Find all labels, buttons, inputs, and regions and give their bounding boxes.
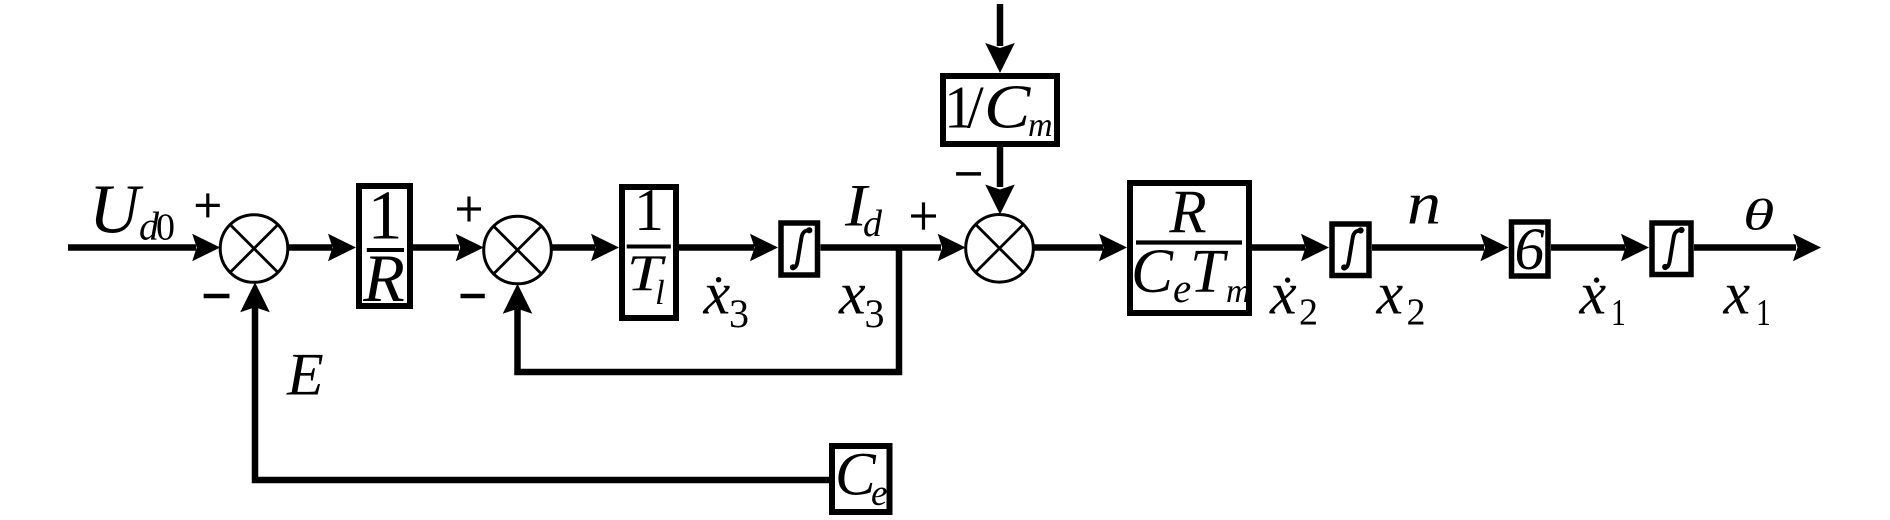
svg-text:3: 3: [865, 291, 885, 336]
svg-text:/: /: [967, 75, 984, 141]
svg-text:x: x: [1376, 261, 1404, 327]
summing junction S3: [966, 215, 1034, 283]
svg-text:6: 6: [1515, 216, 1545, 282]
svg-text:m: m: [1226, 273, 1251, 310]
block 1/Cm: [943, 73, 1057, 144]
svg-text:1: 1: [1611, 293, 1626, 334]
wire: S3 to block R/CeTm: [1033, 234, 1127, 261]
svg-text:l: l: [655, 273, 665, 312]
block Ce: [832, 442, 890, 515]
label x2dot: [1269, 261, 1318, 334]
block R/CeTm: [1130, 179, 1251, 313]
svg-text:θ: θ: [1743, 190, 1774, 239]
minus sign at summing junction S3: [956, 172, 981, 176]
integrator block N2: [1332, 224, 1369, 276]
block 6: [1512, 216, 1549, 282]
label x1: [1723, 261, 1771, 334]
minus sign at summing junction S1: [204, 294, 230, 299]
svg-text:R: R: [1168, 179, 1206, 246]
plus sign at summing junction S2: [457, 197, 481, 222]
svg-text:x: x: [1723, 261, 1751, 327]
svg-text:x: x: [703, 261, 731, 327]
svg-text:2: 2: [1299, 292, 1318, 334]
wire: output theta: [1694, 234, 1821, 261]
plus sign at summing junction S1: [196, 193, 220, 217]
block 1/R: [359, 178, 410, 317]
wire: block 1/Cm to summing junction S3: [985, 147, 1015, 215]
wire: block 6 to integrator N3: [1551, 234, 1649, 261]
plus sign at summing junction S3: [911, 202, 936, 229]
svg-text:T: T: [1190, 238, 1229, 306]
svg-text:U: U: [89, 172, 144, 249]
wire: block 1/R to summing junction S2: [413, 234, 484, 261]
svg-text:e: e: [871, 473, 887, 514]
svg-text:E: E: [286, 342, 324, 408]
svg-text:m: m: [1028, 107, 1053, 144]
wire: S2 to block 1/Tl: [551, 234, 619, 261]
svg-text:x: x: [1579, 261, 1607, 327]
label x3dot: [703, 261, 750, 337]
label x1dot: [1579, 261, 1626, 334]
label x2: [1376, 261, 1426, 334]
wire: integrator N2 to block 6: [1372, 234, 1509, 261]
wire: block 1/Tl to integrator N1: [679, 234, 778, 261]
wire: x3 feedback from node to S2: [503, 248, 899, 373]
wire: S1 to block 1/R: [288, 234, 357, 261]
wire: main input U_d0: [68, 234, 220, 261]
label U_d0: [89, 172, 175, 249]
svg-text:1: 1: [1756, 293, 1771, 334]
svg-text:x: x: [1269, 261, 1297, 327]
integrator block N1: [781, 223, 818, 275]
summing junction S2: [484, 216, 552, 284]
svg-text:3: 3: [729, 291, 749, 336]
label x3: [838, 261, 885, 337]
svg-text:x: x: [838, 261, 866, 327]
label I_d: [844, 172, 883, 245]
wire: integrator N1 to summing junction S3: [821, 234, 966, 261]
wire: E feedback from block Ce to S1: [240, 282, 829, 480]
svg-text:1: 1: [634, 177, 664, 243]
svg-text:C: C: [984, 73, 1031, 142]
svg-text:R: R: [362, 240, 405, 316]
wire: block R/CeTm to integrator N2: [1252, 234, 1329, 261]
summing junction S1: [220, 215, 288, 283]
svg-text:d: d: [863, 203, 883, 245]
integrator block N3: [1652, 223, 1691, 275]
minus sign at summing junction S2: [461, 294, 485, 299]
wire: disturbance input from top: [985, 4, 1015, 73]
svg-text:e: e: [1173, 265, 1191, 311]
svg-text:2: 2: [1407, 292, 1426, 334]
svg-text:0: 0: [156, 207, 175, 249]
block 1/Tl: [622, 177, 676, 318]
svg-text:C: C: [1131, 236, 1174, 306]
svg-text:n: n: [1407, 171, 1441, 237]
